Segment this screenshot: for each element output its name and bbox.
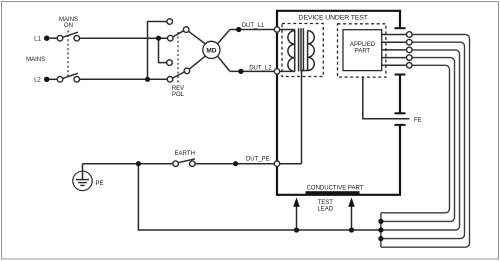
svg-text:LEAD: LEAD: [317, 207, 333, 213]
svg-text:PE: PE: [96, 181, 104, 187]
svg-text:MD: MD: [206, 47, 216, 54]
svg-text:MAINS: MAINS: [26, 57, 45, 63]
svg-text:L1: L1: [34, 37, 41, 43]
svg-text:EARTH: EARTH: [175, 151, 195, 157]
svg-text:DEVICE UNDER TEST: DEVICE UNDER TEST: [299, 15, 368, 22]
svg-text:PART: PART: [355, 49, 371, 55]
svg-text:FE: FE: [414, 118, 422, 124]
svg-text:TEST: TEST: [318, 200, 334, 206]
svg-text:APPLIED: APPLIED: [350, 42, 376, 48]
svg-text:MAINS: MAINS: [59, 17, 78, 23]
svg-text:L2: L2: [34, 78, 41, 84]
svg-text:CONDUCTIVE PART: CONDUCTIVE PART: [307, 185, 364, 191]
svg-text:REV: REV: [172, 86, 184, 92]
svg-text:POL: POL: [172, 92, 185, 98]
svg-text:DUT_L2: DUT_L2: [249, 65, 272, 71]
svg-text:DUT_PE: DUT_PE: [246, 157, 270, 163]
svg-text:DUT_L1: DUT_L1: [242, 23, 265, 29]
svg-text:ON: ON: [64, 23, 73, 29]
